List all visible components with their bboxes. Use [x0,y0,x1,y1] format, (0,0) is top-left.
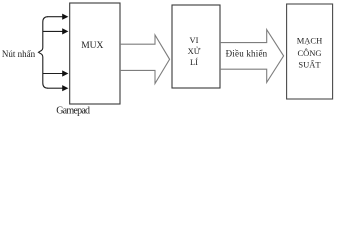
svg-text:MẠCH: MẠCH [297,35,323,45]
wire brace bus [39,17,49,89]
block MACH CONG SUAT [287,4,333,99]
svg-text:LÍ: LÍ [190,57,198,67]
svg-text:Nút nhấn: Nút nhấn [2,49,36,59]
svg-text:Gamepad: Gamepad [56,106,90,117]
block VI XU LI [172,5,220,88]
svg-text:SUẤT: SUẤT [298,60,321,70]
wire block-arrow MUX to VI XU LI [120,35,170,84]
wire block-arrow VI XU LI to MACH CONG SUAT [220,30,284,83]
svg-text:CÔNG: CÔNG [297,48,321,58]
wire arrow 3 [43,70,68,76]
block MUX [70,3,120,104]
wire arrow 4 [48,85,69,91]
svg-text:Điều khiển: Điều khiển [226,48,268,58]
wire arrow 2 [43,28,68,34]
svg-text:MUX: MUX [81,41,103,51]
svg-text:VI: VI [190,35,199,45]
svg-text:XỬ: XỬ [188,46,201,56]
wire arrow 1 [48,14,69,20]
